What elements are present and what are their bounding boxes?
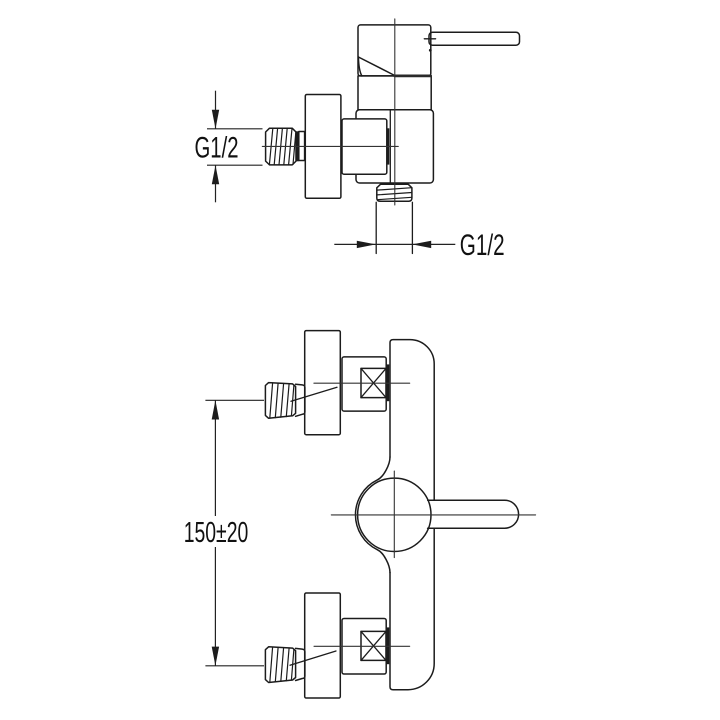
bottom nipple thread lines (front view) [270,647,294,682]
outlet union collar (side view) [377,184,412,201]
top cartridge square (front view) [361,368,386,397]
top dark seal bar (front view) [387,364,390,401]
bottom square diagonal 1 [361,631,386,660]
cap lower-left edge [358,57,361,76]
top connector centerline [314,382,410,384]
body bulge outline (front view) [355,457,390,573]
nipple shoulder (side view) [296,131,299,161]
bottom threaded nipple (front view) [265,647,295,683]
top wall flange (front view) [305,331,341,435]
arrow up (left G1/2) [212,165,219,184]
body outline top portion (front view) [390,340,434,500]
dimension line above [215,91,217,129]
outlet collar thread lines [377,188,412,200]
bottom dark seal bar (front view) [387,627,390,664]
dimension line middle [376,243,412,245]
extension line top [207,128,263,130]
extension line bottom [207,164,263,166]
valve cap (side view) [358,25,431,76]
vertical centerline (side view) [394,19,396,205]
top eccentric diagonal [291,387,337,401]
threaded nipple G1/2 (side view) [266,128,296,165]
arrow left (bottom G1/2) [412,241,431,248]
bottom union nut (front view) [342,619,386,675]
handle pivot dot [429,49,432,52]
bottom square diagonal 2 [361,631,386,660]
handle axis tick [424,38,435,40]
body internal edge (side view) [389,110,391,183]
main body block (side view) [356,110,433,183]
horizontal centerline (front view) [331,514,535,516]
dimension line left tail [334,243,376,245]
svg-text:150±20: 150±20 [184,517,249,549]
handle lever (front view) [428,500,519,528]
bottom connector centerline [314,645,410,647]
dimension line upper segment [214,400,216,516]
arrow right (bottom G1/2) [357,241,376,248]
extension line top [205,399,264,401]
nipple collar (side view) [299,132,305,161]
union nut (side view) [342,119,387,174]
arrow down (left G1/2) [212,110,219,129]
handle ball circle (front view) [358,478,431,551]
horizontal centerline (side view) [262,145,398,147]
top square diagonal 2 [361,368,386,397]
dimension line below [215,165,217,202]
upper body band (side view) [358,76,431,110]
bottom cartridge square (front view) [361,631,386,660]
svg-text:G1/2: G1/2 [460,229,505,262]
dimension line right tail [412,243,455,245]
bottom wall flange (front view) [305,593,341,698]
outlet tube left line [375,202,377,253]
dimension line lower segment [214,547,216,666]
wall flange (side view) [305,95,341,199]
arrow up (150) [212,400,219,419]
bottom nipple collar (front view) [296,648,305,680]
cap slant cut line [358,57,394,76]
top threaded nipple (front view) [265,383,295,419]
dark seal bar (side view) [387,128,390,164]
nipple thread lines (side view) [269,128,295,165]
extension line bottom [205,665,264,667]
outlet tube right line [411,202,413,253]
vertical centerline (front view) [393,471,395,557]
top nipple collar (front view) [296,384,305,416]
svg-text:G1/2: G1/2 [195,132,239,165]
top union nut (front view) [342,357,386,411]
handle lever (side view) [429,32,520,45]
bottom eccentric diagonal [290,651,336,665]
cap/band joint thick line (side view) [395,75,431,78]
top nipple thread lines (front view) [270,383,294,418]
top square diagonal 1 [361,368,386,397]
arrow down (150) [212,647,219,666]
body outline bottom portion (front view) [390,529,434,690]
